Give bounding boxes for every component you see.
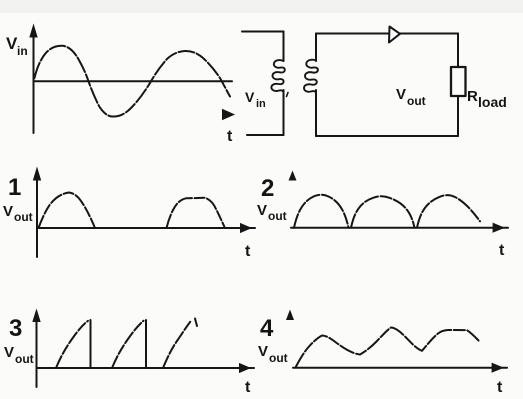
wire: secondary top vertical — [315, 34, 317, 62]
label t (graph3) — [245, 379, 251, 396]
label t (Vin graph) — [227, 128, 233, 145]
label Vin (circuit) — [245, 89, 266, 110]
wire: output top (left of diode) — [316, 33, 388, 35]
wire: input bottom lead — [247, 134, 284, 136]
svg-text:t: t — [245, 379, 251, 396]
svg-text:V: V — [4, 344, 14, 361]
graph1 y-axis — [33, 167, 41, 258]
transformer secondary coil L2 — [304, 60, 318, 93]
graph3 ramp 1 — [56, 320, 91, 368]
svg-text:in: in — [17, 44, 28, 58]
graph4 waveform ripple — [296, 328, 480, 367]
svg-text:V: V — [245, 89, 255, 105]
label choice 2 — [261, 175, 274, 202]
graph2 x-axis — [291, 223, 508, 233]
svg-text:t: t — [245, 243, 251, 260]
label Vout (graph3) — [4, 344, 34, 366]
waveform Vin sine — [35, 46, 231, 117]
label Rload — [467, 88, 507, 110]
svg-text:in: in — [256, 98, 266, 110]
label Vout (graph4) — [258, 343, 288, 365]
svg-text:out: out — [268, 209, 287, 223]
label t (graph1) — [245, 243, 251, 260]
svg-text:V: V — [3, 203, 13, 220]
wire: secondary bottom vertical — [315, 90, 317, 136]
graph4 y-axis arrowhead — [286, 310, 294, 321]
wire: primary bottom vertical — [283, 90, 285, 135]
wire: input top lead — [242, 31, 284, 33]
svg-text:load: load — [478, 94, 507, 110]
svg-text:4: 4 — [260, 315, 274, 342]
graph3 x-axis — [37, 363, 255, 373]
scan top band — [0, 0, 523, 13]
label t (graph2) — [499, 242, 505, 259]
graph1 waveform hump 2 — [167, 198, 225, 228]
svg-text:V: V — [257, 202, 267, 219]
graph3 ramp 3 — [163, 319, 197, 369]
graph Vin: y-axis — [29, 24, 37, 134]
svg-text:t: t — [497, 379, 503, 396]
label Vout (graph2) — [257, 202, 287, 223]
svg-text:out: out — [269, 351, 288, 365]
svg-text:t: t — [227, 128, 233, 145]
label Vout (circuit) — [396, 86, 426, 108]
label Vout (graph1) — [3, 203, 33, 224]
svg-text:out: out — [14, 210, 33, 224]
label choice 4 — [260, 315, 274, 342]
graph1 waveform hump 1 — [39, 193, 96, 229]
wire: output top (right of diode) — [400, 33, 458, 35]
label choice 1 — [8, 174, 21, 201]
svg-text:t: t — [499, 242, 505, 259]
svg-text:R: R — [467, 88, 478, 105]
graph1 x-axis — [37, 223, 255, 233]
wire: right vertical below resistor — [457, 96, 459, 136]
wire: right vertical above resistor — [457, 34, 459, 68]
resistor Rload — [451, 67, 466, 96]
svg-text:3: 3 — [9, 315, 22, 342]
transformer primary coil L1 — [271, 60, 284, 92]
label t (graph4) — [497, 379, 503, 396]
svg-text:out: out — [407, 94, 426, 108]
wire: output bottom — [316, 135, 458, 137]
diode D1 — [389, 27, 400, 43]
wire: primary top vertical — [283, 32, 285, 62]
svg-text:1: 1 — [8, 174, 21, 201]
graph3 ramp 2 — [112, 320, 146, 368]
t-axis arrow (Vin graph) — [222, 109, 235, 120]
label Vin (graph) — [6, 34, 28, 58]
graph2 y-axis arrowhead — [289, 171, 297, 181]
svg-text:V: V — [396, 86, 406, 103]
label choice 3 — [9, 315, 22, 342]
svg-text:2: 2 — [261, 175, 274, 202]
graph3 y-axis — [32, 309, 40, 388]
svg-text:out: out — [15, 352, 34, 366]
graph4 x-axis — [293, 363, 507, 373]
svg-text:V: V — [258, 343, 268, 360]
graph Vin: x-axis — [34, 80, 233, 82]
graph2 waveform humps — [294, 195, 480, 228]
